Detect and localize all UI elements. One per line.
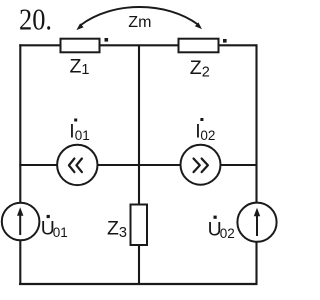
svg-text:20.: 20. <box>19 3 52 37</box>
wire bottom horizontal <box>19 283 258 285</box>
label I01 <box>69 119 90 144</box>
wire top horizontal <box>19 44 256 46</box>
wire middle vertical <box>138 45 140 284</box>
svg-text:Z3: Z3 <box>107 218 127 242</box>
resistor Z2 <box>179 39 219 53</box>
svg-text:I02: I02 <box>195 121 215 143</box>
wire right vertical <box>255 44 257 284</box>
svg-text:I01: I01 <box>69 121 90 143</box>
label U01 <box>41 215 68 240</box>
label I02 <box>195 118 215 143</box>
voltage source U02 <box>237 203 276 242</box>
mutual coupling arrow Zm <box>76 7 202 30</box>
resistor Z1 <box>61 39 100 53</box>
current source I02 <box>181 145 221 185</box>
svg-text:U01: U01 <box>41 218 68 240</box>
wire middle row horizontal <box>19 164 256 166</box>
current source I01 <box>57 145 97 185</box>
svg-text:Zm: Zm <box>128 14 151 31</box>
resistor Z3 <box>131 205 148 246</box>
voltage source U01 <box>2 203 40 241</box>
dot polarity mark at Z2 <box>223 39 227 43</box>
svg-text:Z2: Z2 <box>190 57 210 80</box>
label U02 <box>208 216 235 241</box>
svg-text:Z1: Z1 <box>70 55 90 78</box>
wire left vertical <box>19 44 21 284</box>
dot polarity mark at Z1 <box>105 38 109 42</box>
svg-text:U02: U02 <box>208 218 235 240</box>
